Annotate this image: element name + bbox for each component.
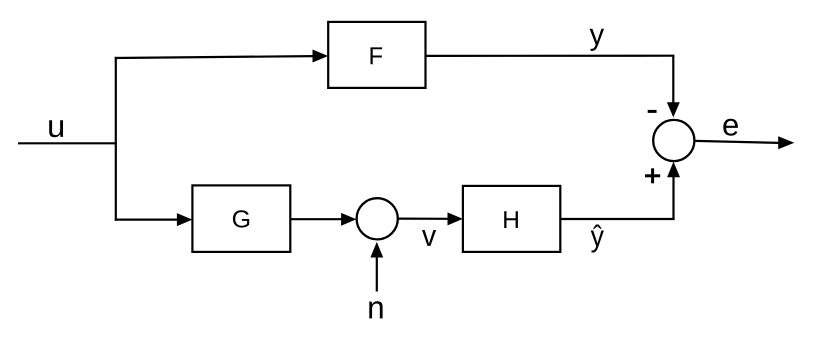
wire: branch to F (top horizontal) — [115, 56, 313, 58]
wire: noise circle output to H — [398, 218, 449, 220]
label u — [49, 120, 63, 137]
wire: vertical up into summing junction bottom — [672, 177, 674, 220]
wire: G output to noise summing circle — [290, 218, 342, 220]
wire: vertical down into summing junction — [672, 56, 674, 103]
label v — [422, 230, 436, 246]
arrowhead into F — [313, 50, 329, 63]
wire: branch to G (bottom horizontal) — [115, 219, 178, 221]
label H — [504, 211, 518, 228]
arrowhead into noise summing circle — [341, 213, 356, 226]
label y — [590, 29, 605, 51]
label y-hat — [591, 225, 604, 253]
arrowhead into summing junction top — [667, 102, 680, 117]
label G — [233, 210, 249, 227]
wire: summing junction output e — [695, 141, 780, 143]
arrowhead into G — [177, 213, 193, 226]
arrowhead output e — [778, 136, 794, 149]
block H — [463, 186, 560, 252]
block F — [328, 22, 425, 88]
noise summing circle — [357, 198, 398, 239]
wire: F output to corner — [426, 55, 675, 57]
label minus sign — [648, 110, 657, 113]
wire: H output horizontal — [560, 218, 674, 220]
block G — [192, 185, 290, 252]
summing junction circle (error comparator) — [653, 120, 694, 161]
wire: n input vertical — [376, 257, 378, 292]
arrowhead into summing junction bottom — [667, 162, 680, 178]
arrowhead n into noise circle — [370, 242, 383, 258]
label n — [369, 301, 382, 318]
node: branch point vertical wire — [115, 57, 117, 221]
arrowhead into H — [448, 212, 463, 225]
label e — [723, 119, 738, 136]
wire: input u horizontal segment — [18, 142, 117, 144]
label F — [370, 47, 382, 64]
label plus sign — [645, 174, 660, 177]
